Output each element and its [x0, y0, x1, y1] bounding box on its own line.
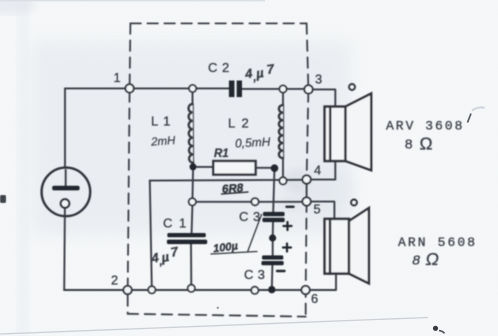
signal source (pickup)	[42, 168, 91, 217]
svg-text:L 2: L 2	[228, 116, 250, 131]
wire: top rail left of C2	[65, 87, 229, 89]
node C circle (L1 leg / woofer feed)	[189, 198, 196, 205]
node E circle (L2 bottom)	[279, 177, 286, 184]
svg-text:8: 8	[405, 138, 413, 154]
scan artifact: small dot below box	[217, 307, 219, 309]
junction dot L1/R1	[190, 163, 197, 170]
label C3 value 100u with leader	[211, 215, 262, 256]
polarity minus upper C3	[287, 206, 294, 208]
inductor L2 coil	[279, 105, 283, 158]
wire: L2 bottom lead	[282, 158, 284, 177]
svg-text:2: 2	[111, 273, 118, 288]
label C2 value 4u7	[243, 61, 276, 85]
capacitor C3 lower plates	[262, 255, 283, 259]
terminal node 6	[301, 286, 309, 294]
woofer speaker symbol	[325, 200, 369, 284]
inductor L1 coil spine	[192, 104, 194, 163]
wire: left return vertical x150	[150, 181, 152, 288]
wire: L2 top lead	[282, 93, 284, 106]
wire: input drop from node1 to source	[64, 88, 67, 186]
capacitor C3 upper plates	[263, 212, 285, 216]
wire: woofer feed y202	[192, 201, 306, 203]
node H circle (bottom rail mid)	[251, 287, 258, 294]
wire: L1 bottom to junction	[191, 163, 194, 202]
capacitor C1 plates	[167, 233, 206, 237]
svg-text:3: 3	[315, 72, 322, 87]
junction dot C3/bottom rail	[268, 286, 275, 293]
resistor R1 body	[213, 161, 255, 175]
node A circle (L1 top)	[189, 85, 196, 92]
svg-text:R1: R1	[214, 148, 229, 160]
node G circle (C1 bottom)	[188, 285, 195, 292]
svg-text:C 1: C 1	[163, 216, 188, 231]
scan artifact: faint top edge line	[0, 0, 265, 2]
wire: C1 leads	[191, 205, 192, 286]
svg-text:6: 6	[311, 291, 318, 306]
svg-text:0,5mH: 0,5mH	[235, 135, 271, 151]
label R1 value 6R8	[222, 182, 249, 195]
svg-text:ARV 3608: ARV 3608	[386, 119, 464, 134]
label C1 value 4u7	[149, 244, 181, 270]
scan artifact: left edge dark mark	[0, 195, 6, 203]
svg-text:4: 4	[314, 163, 321, 178]
inductor L1 coil	[188, 104, 193, 163]
node D circle (woofer feed mid)	[251, 198, 258, 205]
svg-text:2mH: 2mH	[150, 135, 177, 149]
junction dot C3/C3	[269, 234, 276, 241]
svg-text:C 3: C 3	[244, 267, 265, 282]
node B circle (L2 top)	[279, 85, 286, 92]
inductor L2 coil spine	[283, 105, 285, 158]
wire: node6 to woofer	[306, 274, 336, 290]
wire: node4-node5 link	[306, 180, 308, 202]
polarity plus lower C3	[283, 244, 291, 252]
wire: top rail right of C2 to node 3	[242, 88, 309, 90]
svg-text:ARN 5608: ARN 5608	[398, 235, 477, 250]
crossover enclosure dashed box	[128, 23, 309, 316]
tweeter speaker symbol	[325, 84, 372, 170]
polarity plus upper C3	[284, 222, 292, 230]
terminal node 3	[304, 85, 312, 93]
wire: source bottom to bottom rail	[63, 208, 66, 290]
terminal node 5	[302, 197, 310, 205]
svg-text:C 2: C 2	[208, 60, 230, 75]
wire: node4 return line y180	[150, 179, 307, 182]
junction dot R1/C3	[271, 164, 279, 172]
svg-text:Ω: Ω	[426, 249, 439, 269]
wire: bottom rail	[64, 289, 305, 291]
node F circle (left return at bottom rail)	[148, 286, 155, 293]
polarity minus lower C3	[277, 270, 285, 272]
wire: R1 leads	[193, 166, 275, 169]
capacitor C2 plates	[229, 81, 235, 98]
svg-text:Ω: Ω	[420, 134, 433, 154]
wire: node4 to tweeter	[307, 161, 336, 180]
scan artifact: faint diagonal bottom	[0, 318, 428, 335]
scan artifact: faint arc top right	[472, 107, 485, 110]
wire: R1 to C3 vertical	[272, 168, 275, 290]
svg-text:8: 8	[412, 254, 420, 270]
terminal node 2	[123, 286, 131, 294]
svg-text:5: 5	[313, 202, 320, 217]
wire: node5 to woofer	[307, 202, 335, 219]
terminal node 1	[125, 84, 133, 92]
svg-text:C 3: C 3	[239, 209, 261, 224]
wire: node3 to tweeter	[309, 89, 336, 106]
terminal node 4	[302, 175, 310, 183]
scan artifact: dark mark bottom right	[433, 326, 445, 334]
wire: L1 top lead	[192, 92, 194, 104]
scan artifact: apostrophe near ARV	[468, 114, 472, 123]
svg-text:L 1: L 1	[151, 114, 171, 129]
svg-text:1: 1	[113, 70, 120, 85]
